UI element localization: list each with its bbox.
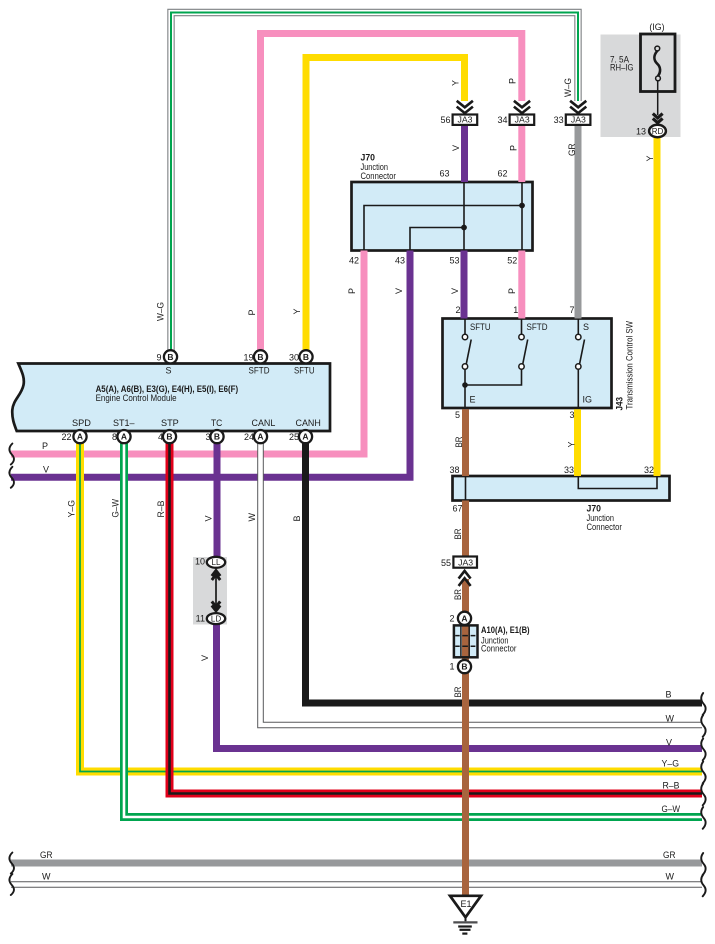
- svg-text:V: V: [450, 288, 460, 294]
- svg-text:43: 43: [395, 256, 405, 266]
- svg-text:7: 7: [569, 305, 574, 315]
- svg-text:GR: GR: [567, 143, 577, 156]
- svg-text:30: 30: [289, 352, 299, 362]
- svg-text:P: P: [508, 78, 518, 84]
- svg-text:22: 22: [61, 432, 71, 442]
- svg-text:5: 5: [455, 410, 460, 420]
- svg-text:Y: Y: [645, 155, 655, 161]
- svg-text:R–B: R–B: [156, 501, 166, 518]
- svg-text:53: 53: [449, 256, 459, 266]
- svg-text:34: 34: [497, 115, 507, 125]
- svg-text:W: W: [666, 714, 675, 724]
- svg-text:CANH: CANH: [296, 418, 321, 428]
- svg-text:25: 25: [289, 432, 299, 442]
- svg-text:Transmission Control SW: Transmission Control SW: [625, 321, 635, 410]
- svg-text:P: P: [507, 288, 517, 294]
- svg-text:B: B: [303, 352, 309, 362]
- svg-text:38: 38: [449, 465, 459, 475]
- svg-text:W: W: [42, 872, 51, 882]
- svg-text:A: A: [257, 432, 263, 442]
- svg-text:W: W: [666, 872, 675, 882]
- svg-text:B: B: [461, 662, 467, 672]
- svg-text:33: 33: [554, 115, 564, 125]
- svg-text:62: 62: [497, 169, 507, 179]
- svg-text:Y–G: Y–G: [662, 759, 680, 769]
- svg-text:P: P: [247, 309, 257, 315]
- svg-text:E1: E1: [460, 899, 471, 909]
- svg-text:R–B: R–B: [663, 781, 680, 791]
- svg-text:G–W: G–W: [662, 804, 681, 814]
- svg-text:B: B: [292, 515, 302, 521]
- svg-text:52: 52: [507, 256, 517, 266]
- svg-text:(IG): (IG): [649, 22, 664, 32]
- svg-text:W–G: W–G: [563, 78, 573, 97]
- svg-text:42: 42: [349, 256, 359, 266]
- svg-text:A: A: [302, 432, 308, 442]
- svg-text:JA3: JA3: [515, 116, 531, 125]
- svg-text:2: 2: [455, 305, 460, 315]
- svg-text:STP: STP: [161, 418, 179, 428]
- svg-text:BR: BR: [453, 686, 463, 697]
- svg-text:A: A: [121, 432, 127, 442]
- svg-text:LL: LL: [212, 558, 221, 567]
- svg-text:BR: BR: [453, 589, 463, 600]
- svg-text:8: 8: [112, 432, 117, 442]
- svg-text:TC: TC: [211, 418, 223, 428]
- svg-text:SFTU: SFTU: [470, 322, 491, 332]
- svg-text:9: 9: [156, 352, 161, 362]
- svg-text:33: 33: [564, 465, 574, 475]
- svg-text:G–W: G–W: [111, 499, 121, 518]
- svg-text:SPD: SPD: [72, 418, 91, 428]
- svg-text:J43: J43: [615, 397, 625, 411]
- svg-text:2: 2: [449, 613, 454, 623]
- svg-text:4: 4: [158, 432, 163, 442]
- svg-text:S: S: [166, 366, 172, 376]
- svg-text:V: V: [451, 145, 461, 151]
- svg-text:SFTD: SFTD: [249, 366, 270, 376]
- svg-text:B: B: [167, 352, 173, 362]
- svg-text:55: 55: [441, 558, 451, 568]
- svg-text:B: B: [214, 432, 220, 442]
- svg-text:Y: Y: [567, 441, 577, 447]
- svg-text:56: 56: [440, 115, 450, 125]
- svg-text:IG: IG: [583, 395, 593, 405]
- svg-text:BR: BR: [453, 528, 463, 539]
- svg-text:GR: GR: [40, 850, 53, 860]
- svg-text:W: W: [247, 513, 257, 522]
- svg-text:S: S: [583, 322, 589, 332]
- svg-text:Y–G: Y–G: [67, 500, 77, 518]
- svg-text:1: 1: [513, 305, 518, 315]
- svg-text:V: V: [666, 738, 672, 748]
- svg-text:A: A: [77, 432, 83, 442]
- svg-text:P: P: [42, 441, 48, 451]
- svg-text:13: 13: [636, 127, 646, 137]
- svg-text:P: P: [509, 145, 519, 151]
- svg-text:JA3: JA3: [458, 116, 474, 125]
- svg-text:Connector: Connector: [361, 171, 396, 181]
- svg-text:B: B: [166, 432, 172, 442]
- svg-text:Y: Y: [292, 308, 302, 314]
- svg-text:Connector: Connector: [587, 522, 622, 532]
- svg-text:10: 10: [195, 557, 205, 567]
- svg-text:3: 3: [569, 410, 574, 420]
- svg-text:SFTU: SFTU: [294, 366, 315, 376]
- svg-text:1: 1: [449, 662, 454, 672]
- svg-text:CANL: CANL: [252, 418, 276, 428]
- svg-text:ST1–: ST1–: [113, 418, 135, 428]
- svg-text:Y: Y: [451, 80, 461, 86]
- svg-text:RD: RD: [652, 127, 664, 136]
- svg-text:24: 24: [244, 432, 254, 442]
- svg-text:SFTD: SFTD: [527, 322, 548, 332]
- svg-text:3: 3: [205, 432, 210, 442]
- svg-text:A: A: [461, 613, 467, 623]
- svg-text:Engine Control Module: Engine Control Module: [96, 393, 177, 403]
- svg-text:63: 63: [439, 169, 449, 179]
- svg-text:V: V: [200, 655, 210, 661]
- svg-text:P: P: [347, 288, 357, 294]
- svg-text:V: V: [43, 464, 49, 474]
- svg-text:V: V: [394, 288, 404, 294]
- svg-text:BR: BR: [454, 436, 464, 447]
- svg-text:JA3: JA3: [571, 116, 587, 125]
- svg-text:E: E: [470, 395, 476, 405]
- svg-text:GR: GR: [663, 850, 676, 860]
- svg-text:B: B: [665, 690, 671, 700]
- svg-text:LD: LD: [211, 615, 221, 624]
- svg-text:JA3: JA3: [458, 558, 474, 567]
- svg-text:B: B: [257, 352, 263, 362]
- svg-text:11: 11: [196, 613, 205, 623]
- svg-text:W–G: W–G: [156, 302, 166, 321]
- svg-text:V: V: [204, 515, 214, 521]
- svg-text:19: 19: [243, 352, 253, 362]
- svg-text:RH–IG: RH–IG: [610, 63, 634, 73]
- svg-text:Connector: Connector: [481, 644, 516, 654]
- svg-text:A10(A), E1(B): A10(A), E1(B): [481, 625, 530, 635]
- svg-text:32: 32: [644, 465, 654, 475]
- svg-text:67: 67: [453, 504, 463, 514]
